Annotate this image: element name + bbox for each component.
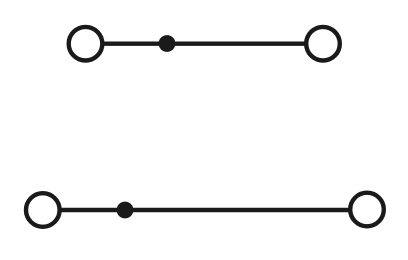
terminal circle lower right (350, 193, 384, 227)
wire lower level (43, 208, 367, 212)
terminal circle upper left (69, 27, 103, 61)
junction dot upper level (159, 35, 176, 52)
terminal circle lower left (26, 193, 60, 227)
terminal circle upper right (306, 27, 340, 61)
wire upper level (86, 42, 324, 46)
junction dot lower level (117, 202, 134, 219)
